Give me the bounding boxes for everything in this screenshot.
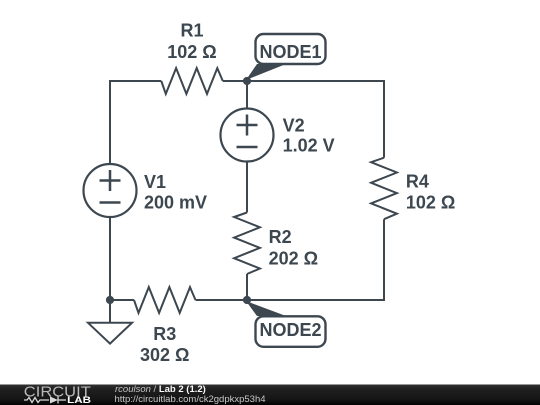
svg-text:302 Ω: 302 Ω xyxy=(140,345,189,365)
svg-text:202 Ω: 202 Ω xyxy=(269,248,318,268)
svg-text:LAB: LAB xyxy=(67,395,91,405)
svg-text:R3: R3 xyxy=(153,324,176,344)
svg-text:http://circuitlab.com/ck2gdpkx: http://circuitlab.com/ck2gdpkxp53h4 xyxy=(115,394,266,405)
svg-text:102 Ω: 102 Ω xyxy=(167,42,216,62)
svg-text:NODE2: NODE2 xyxy=(259,320,321,340)
svg-text:V1: V1 xyxy=(144,172,166,192)
svg-text:R4: R4 xyxy=(406,171,429,191)
svg-text:102 Ω: 102 Ω xyxy=(406,193,455,213)
svg-text:R2: R2 xyxy=(269,227,292,247)
svg-text:1.02 V: 1.02 V xyxy=(283,136,335,156)
svg-text:NODE1: NODE1 xyxy=(259,42,321,62)
svg-text:R1: R1 xyxy=(180,20,203,40)
svg-text:200 mV: 200 mV xyxy=(144,193,207,213)
svg-text:V2: V2 xyxy=(283,116,305,136)
